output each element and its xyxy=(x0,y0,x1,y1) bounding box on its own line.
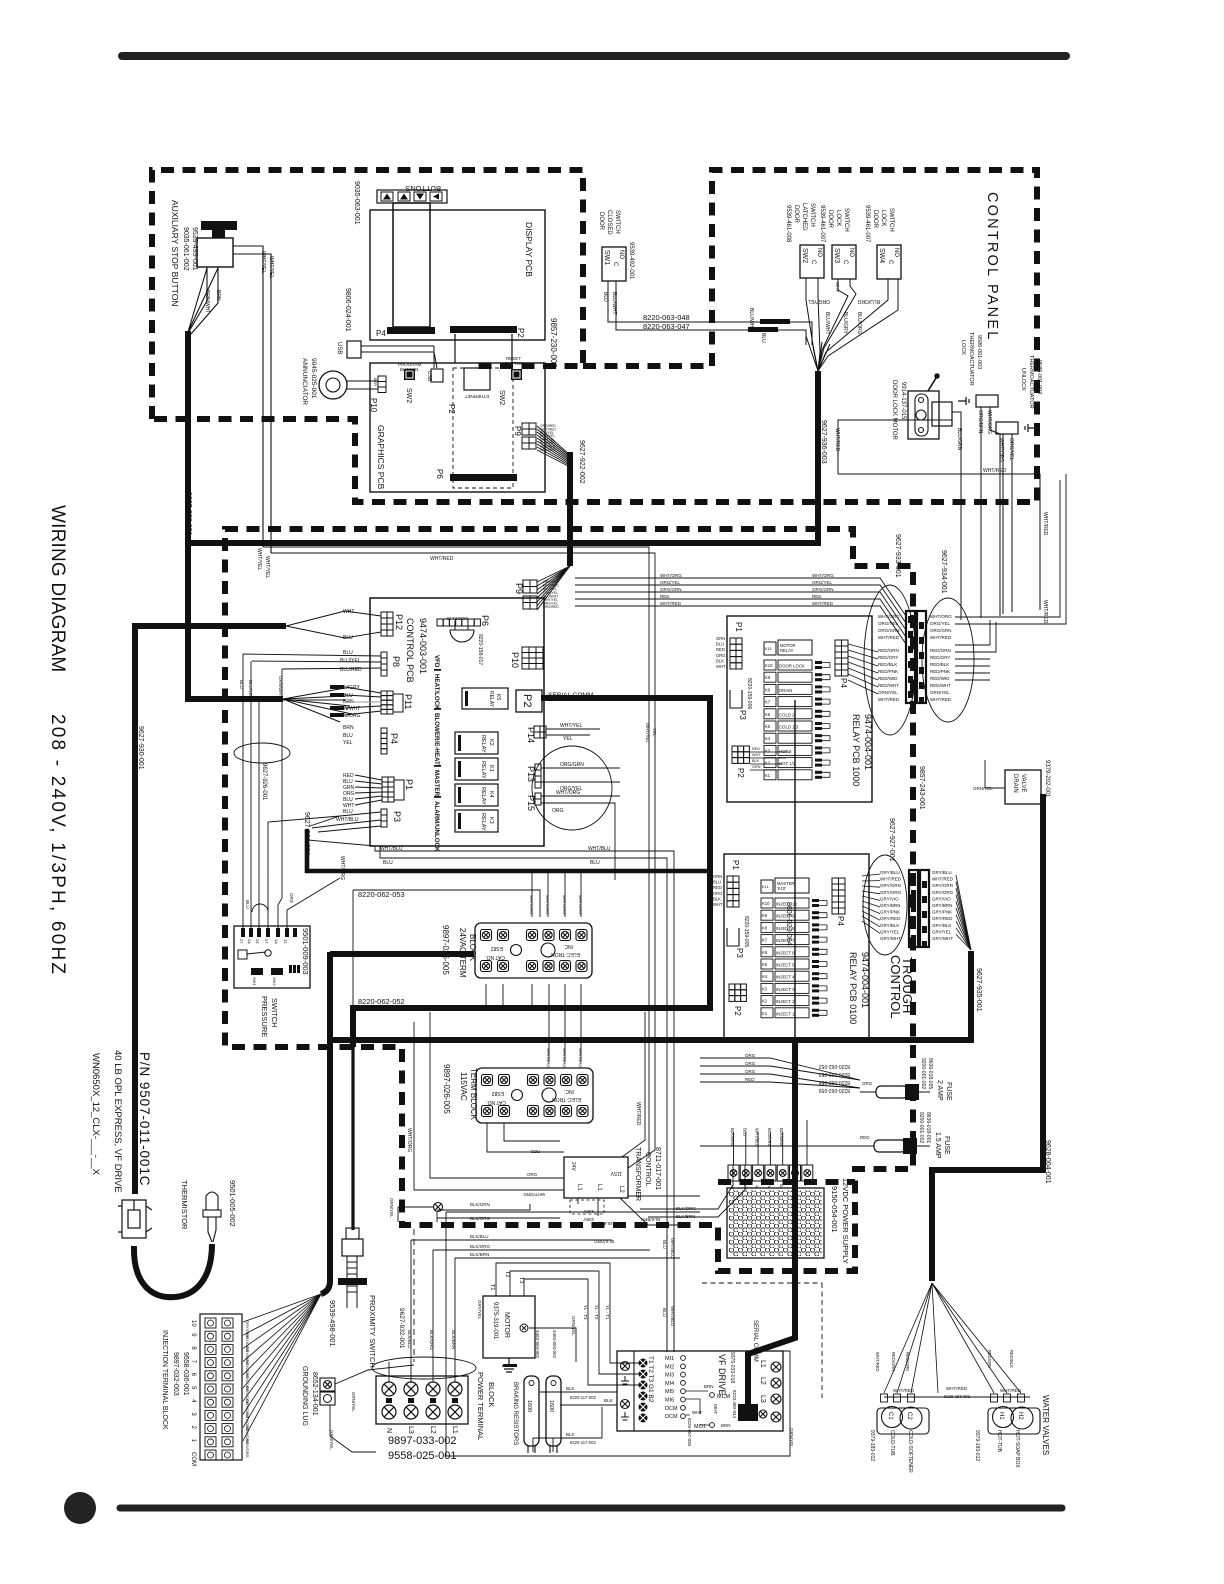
pressure switch xyxy=(234,926,310,988)
svg-text:SW2: SW2 xyxy=(498,390,505,405)
svg-text:40 LB OPL EXPRESS, VF DRIVE: 40 LB OPL EXPRESS, VF DRIVE xyxy=(112,1050,123,1193)
svg-text:K5: K5 xyxy=(765,724,771,729)
svg-text:WHT: WHT xyxy=(692,1410,702,1415)
svg-text:BLK/BLU: BLK/BLU xyxy=(407,1330,412,1349)
svg-text:BLK: BLK xyxy=(752,759,760,763)
svg-text:L3: L3 xyxy=(407,1426,414,1434)
svg-text:ELEC-TRON: ELEC-TRON xyxy=(551,951,580,957)
svg-text:K1: K1 xyxy=(762,1011,768,1016)
svg-text:K10: K10 xyxy=(762,901,770,906)
svg-text:WHT: WHT xyxy=(752,753,761,757)
svg-text:9539-499-001: 9539-499-001 xyxy=(191,227,198,271)
wires 115VAC bottom to transformer xyxy=(487,1123,564,1152)
svg-text:BLU: BLU xyxy=(662,1308,667,1317)
svg-text:9379-202-001: 9379-202-001 xyxy=(1044,760,1050,798)
svg-text:K6: K6 xyxy=(762,950,768,955)
svg-text:8652-134-001: 8652-134-001 xyxy=(311,1372,318,1416)
wires to fuses 8220-062 xyxy=(700,1058,860,1080)
svg-text:MI1: MI1 xyxy=(665,1356,674,1362)
svg-text:ORG/YEL: ORG/YEL xyxy=(660,580,681,585)
svg-text:12VDC POWER SUPPLY: 12VDC POWER SUPPLY xyxy=(841,1178,850,1264)
svg-text:9474-004-001: 9474-004-001 xyxy=(863,714,873,770)
svg-text:CLOSED: CLOSED xyxy=(606,210,612,235)
svg-text:WHT/ORG: WHT/ORG xyxy=(660,573,682,578)
svg-text:INJECT 6: INJECT 6 xyxy=(776,950,795,955)
svg-text:USB: USB xyxy=(426,371,432,382)
svg-text:GROUNDING LUG: GROUNDING LUG xyxy=(301,1366,308,1426)
svg-text:8220-063-048: 8220-063-048 xyxy=(643,313,690,322)
control transformer xyxy=(564,1157,628,1198)
svg-text:K2: K2 xyxy=(762,999,768,1004)
svg-text:K3: K3 xyxy=(762,986,768,991)
svg-text:208V: 208V xyxy=(583,1217,594,1222)
svg-text:1600: 1600 xyxy=(526,1400,532,1412)
ethernet jack xyxy=(464,368,490,390)
svg-text:8636-018-001: 8636-018-001 xyxy=(925,1112,931,1143)
svg-text:H1: H1 xyxy=(998,1412,1004,1420)
svg-text:BLK: BLK xyxy=(566,1386,575,1391)
svg-text:GRY/YEL: GRY/YEL xyxy=(477,1300,482,1320)
USB plug xyxy=(347,341,361,358)
relays K2 K1 K4 K3 xyxy=(455,732,498,754)
svg-text:GRY/BRN: GRY/BRN xyxy=(932,903,952,908)
dashed outline VF drive bay xyxy=(702,1283,822,1398)
harness ellipse 0100 xyxy=(863,855,907,955)
svg-text:BLK/BRN: BLK/BRN xyxy=(593,1221,612,1226)
svg-text:9627-921-001: 9627-921-001 xyxy=(303,812,310,856)
injection harness fan xyxy=(243,1294,321,1322)
svg-text:8220-063-047: 8220-063-047 xyxy=(643,322,690,331)
svg-text:WHT/ORG: WHT/ORG xyxy=(523,1192,545,1197)
svg-text:DRAIN: DRAIN xyxy=(779,688,792,693)
dashed link display-to-control-panel xyxy=(583,363,712,369)
fan 9627-928 to P4 xyxy=(283,688,352,722)
svg-text:GRY/YEL: GRY/YEL xyxy=(932,929,952,934)
harness ellipse 9627-926 xyxy=(234,743,290,763)
svg-text:2T: 2T xyxy=(239,939,244,944)
svg-text:9627-935-001: 9627-935-001 xyxy=(975,968,982,1012)
wires control bottom WHT/BLU BLU xyxy=(375,846,674,1352)
fan 9627-930 to P12 xyxy=(286,611,345,638)
wires aux stop button WHT/YEL pair xyxy=(233,246,271,553)
svg-text:LOCK: LOCK xyxy=(880,210,886,226)
fan stubs P11 labels xyxy=(330,685,344,689)
fan GRY connector to trunk xyxy=(956,875,971,950)
svg-text:RED: RED xyxy=(752,747,760,751)
svg-text:8220-062-058: 8220-062-058 xyxy=(819,1079,850,1085)
harness ellipse right 9627-934-001 xyxy=(922,598,974,722)
cable thermistor loop xyxy=(132,1157,138,1194)
wires SW1 to splice 8220-063 xyxy=(608,281,806,330)
svg-text:WHT/BLU: WHT/BLU xyxy=(755,1128,760,1147)
svg-text:ORG/YEL: ORG/YEL xyxy=(930,621,951,626)
graphics P6 connector xyxy=(450,474,517,481)
svg-text:WHT/YEL: WHT/YEL xyxy=(645,723,650,743)
svg-text:FUSE: FUSE xyxy=(945,1082,952,1101)
svg-text:WHT: WHT xyxy=(713,1404,718,1414)
svg-text:'K10': 'K10' xyxy=(777,886,786,891)
svg-text:WHT: WHT xyxy=(716,664,726,669)
svg-text:WHT/ORG: WHT/ORG xyxy=(339,856,345,880)
svg-text:WHT/RED: WHT/RED xyxy=(430,556,454,562)
svg-text:WHT/RED: WHT/RED xyxy=(875,1352,880,1372)
svg-text:RELAY: RELAY xyxy=(480,813,486,831)
harness ellipse 9627-933-001 xyxy=(864,585,916,735)
svg-text:RED/WHT: RED/WHT xyxy=(930,683,951,688)
svg-text:CAT NO.: CAT NO. xyxy=(486,1099,506,1105)
svg-text:8220-158-017: 8220-158-017 xyxy=(477,634,483,665)
cable 9627-xxx main lower trunk xyxy=(330,951,971,1040)
svg-text:-V: -V xyxy=(767,1184,772,1189)
svg-text:RED/ORN: RED/ORN xyxy=(891,1352,896,1371)
lock thermoactuator xyxy=(976,395,998,407)
svg-text:WHT/BLU: WHT/BLU xyxy=(670,1238,675,1258)
svg-text:8711-017-001: 8711-017-001 xyxy=(654,1147,661,1190)
VF drive wires MI internal xyxy=(686,1391,710,1425)
graphics USB xyxy=(431,369,443,382)
svg-text:K3: K3 xyxy=(488,817,494,824)
svg-text:MCM: MCM xyxy=(717,1394,731,1400)
svg-text:MI2: MI2 xyxy=(665,1364,674,1370)
svg-text:ORG/YEL: ORG/YEL xyxy=(1008,438,1014,460)
svg-text:GRN/YEL: GRN/YEL xyxy=(389,1198,394,1218)
door lock motor xyxy=(908,391,939,439)
svg-text:SW1: SW1 xyxy=(252,977,257,986)
svg-text:P4: P4 xyxy=(389,733,399,744)
svg-text:C: C xyxy=(612,262,618,267)
svg-text:8220-163-002: 8220-163-002 xyxy=(944,1394,971,1399)
dashed enclosure display assembly xyxy=(152,170,583,419)
braking resistor wires xyxy=(540,1392,617,1405)
svg-text:GRY/VIO: GRY/VIO xyxy=(932,896,951,901)
svg-text:BLK/ORG: BLK/ORG xyxy=(470,1244,491,1249)
svg-text:8220-062-059: 8220-062-059 xyxy=(819,1087,850,1093)
svg-text:L1: L1 xyxy=(596,1184,602,1191)
svg-text:P1: P1 xyxy=(734,622,743,632)
svg-text:BLK/GRN: BLK/GRN xyxy=(470,1202,490,1207)
svg-text:PROXIMITY SWITCH: PROXIMITY SWITCH xyxy=(368,1295,377,1368)
svg-text:BLK: BLK xyxy=(566,1432,575,1437)
svg-text:WHT/RED: WHT/RED xyxy=(880,877,902,882)
svg-text:WHT/ORG: WHT/ORG xyxy=(545,895,550,914)
svg-text:ORG/GRN: ORG/GRN xyxy=(812,587,834,592)
svg-text:SW3: SW3 xyxy=(833,248,840,263)
inline connector pair upper xyxy=(906,611,915,703)
svg-text:BLK/BRN: BLK/BRN xyxy=(730,1128,735,1146)
svg-text:ORG: ORG xyxy=(745,1061,756,1066)
svg-text:RED: RED xyxy=(860,1135,870,1140)
page index dot xyxy=(64,1492,96,1524)
svg-text:WHT/RED: WHT/RED xyxy=(878,697,900,702)
ground screw upper xyxy=(434,1203,443,1212)
svg-text:P9: P9 xyxy=(513,426,522,436)
svg-text:2Z: 2Z xyxy=(255,939,260,944)
svg-text:DCM: DCM xyxy=(665,1406,678,1412)
svg-text:SERIAL COMM: SERIAL COMM xyxy=(752,1320,758,1362)
svg-text:K5: K5 xyxy=(495,694,501,700)
svg-text:8220-117-002: 8220-117-002 xyxy=(570,1440,596,1445)
water valves hot pair xyxy=(988,1408,1040,1434)
svg-text:9627-927-001: 9627-927-001 xyxy=(888,818,895,862)
display PCB xyxy=(370,210,545,340)
svg-text:ORG/GRN: ORG/GRN xyxy=(660,587,682,592)
wires into PS from transformer xyxy=(628,1165,745,1217)
svg-text:DRAIN: DRAIN xyxy=(1012,774,1018,793)
svg-text:L1: L1 xyxy=(759,1360,766,1368)
svg-text:GRN/YEL: GRN/YEL xyxy=(973,786,993,791)
svg-text:9150-054-001: 9150-054-001 xyxy=(830,1186,839,1233)
svg-text:115V: 115V xyxy=(610,1170,622,1176)
svg-text:YEL: YEL xyxy=(563,736,573,742)
loop 8220-062-052 xyxy=(355,1005,503,1007)
water valve cross wire xyxy=(884,1396,1030,1398)
fan relay1000 P4 to connector xyxy=(848,644,878,652)
unlock thermoactuator xyxy=(996,422,1018,434)
svg-text:K7: K7 xyxy=(762,938,768,943)
svg-text:ANNUNCIATOR: ANNUNCIATOR xyxy=(301,358,308,405)
door latched switch SW2 xyxy=(800,245,824,278)
svg-text:RED/ORN: RED/ORN xyxy=(930,648,951,653)
display connector P2 xyxy=(450,326,517,333)
svg-text:ORG/BRN: ORG/BRN xyxy=(977,410,983,434)
svg-text:P1: P1 xyxy=(404,779,414,790)
door lock switch SW3 xyxy=(832,245,856,279)
svg-text:WHT/ORG: WHT/ORG xyxy=(546,1048,551,1067)
svg-text:2A: 2A xyxy=(247,939,252,944)
svg-text:COLD-SOFTENER: COLD-SOFTENER xyxy=(907,1430,913,1473)
transformer secondary wires xyxy=(414,1012,564,1190)
motor ground xyxy=(502,1358,516,1372)
svg-text:9627-922-002: 9627-922-002 xyxy=(578,440,585,484)
svg-text:P11: P11 xyxy=(403,694,413,709)
svg-text:YEL: YEL xyxy=(343,740,353,746)
svg-text:P12: P12 xyxy=(394,614,404,630)
auxiliary stop button xyxy=(201,221,237,230)
relay K5 xyxy=(462,688,508,709)
control P8 xyxy=(381,652,387,676)
harness ellipse control P13-P15 xyxy=(532,746,612,830)
svg-text:9379-183-012: 9379-183-012 xyxy=(869,1430,875,1461)
grounding lug xyxy=(320,1378,335,1391)
svg-text:K1: K1 xyxy=(765,773,771,778)
five wires control to relay1000 xyxy=(575,578,906,616)
svg-text:GRN: GRN xyxy=(713,874,722,879)
cable 24VAC feed xyxy=(330,952,474,1281)
svg-text:9539-492-001: 9539-492-001 xyxy=(628,242,634,280)
svg-text:GRN: GRN xyxy=(752,765,761,769)
control P2 serial xyxy=(516,690,542,712)
svg-text:1600: 1600 xyxy=(548,1400,554,1412)
svg-text:WHT/ORG: WHT/ORG xyxy=(812,573,834,578)
svg-text:8220-062-053: 8220-062-053 xyxy=(358,890,405,899)
svg-text:GRY/GRN: GRY/GRN xyxy=(932,883,953,888)
svg-text:ORG: ORG xyxy=(527,1172,538,1177)
svg-text:8220-117-002: 8220-117-002 xyxy=(570,1395,596,1400)
svg-text:INC.: INC. xyxy=(563,943,573,949)
wire to transformer 115V xyxy=(622,1012,645,1157)
svg-text:L2: L2 xyxy=(429,1426,436,1434)
svg-text:RED/WHT: RED/WHT xyxy=(878,683,899,688)
svg-text:RED/WID: RED/WID xyxy=(878,676,898,681)
svg-text:RED/WID: RED/WID xyxy=(930,676,950,681)
svg-text:P4: P4 xyxy=(836,916,845,926)
svg-text:BLU: BLU xyxy=(716,642,724,647)
svg-text:RED: RED xyxy=(812,594,822,599)
svg-text:3A: 3A xyxy=(274,939,279,944)
svg-text:BLU: BLU xyxy=(602,292,608,302)
wires into power terminal xyxy=(411,1240,455,1382)
svg-text:P4: P4 xyxy=(839,678,848,688)
svg-text:INJECT 3: INJECT 3 xyxy=(776,987,795,992)
drain valve xyxy=(1005,770,1041,804)
svg-text:HOT-SOAP BOX: HOT-SOAP BOX xyxy=(1014,1430,1020,1468)
svg-text:RELAY PCB 1000: RELAY PCB 1000 xyxy=(851,714,861,786)
svg-text:INJECTION TERMINAL BLOCK: INJECTION TERMINAL BLOCK xyxy=(161,1330,168,1430)
svg-text:9857-230-003: 9857-230-003 xyxy=(549,318,558,368)
svg-text:MODEL ID: MODEL ID xyxy=(446,616,468,621)
VF drive box xyxy=(617,1351,783,1431)
svg-text:ORG/GRN: ORG/GRN xyxy=(930,628,952,633)
door lock lever xyxy=(928,378,936,391)
svg-text:YL - T3: YL - T3 xyxy=(583,1305,588,1320)
svg-text:COM: COM xyxy=(190,1452,196,1466)
svg-text:ORG: ORG xyxy=(862,1081,873,1086)
svg-text:T1: T1 xyxy=(489,1284,495,1290)
svg-text:BLU: BLU xyxy=(713,880,721,885)
svg-text:WHT/ORG: WHT/ORG xyxy=(562,895,567,914)
graphics PCB xyxy=(370,363,545,492)
svg-text:P6: P6 xyxy=(435,469,444,479)
proximity switch xyxy=(346,1228,359,1239)
svg-text:C: C xyxy=(887,260,893,265)
svg-text:BLU/WHT: BLU/WHT xyxy=(824,312,830,335)
svg-text:RED/PNK: RED/PNK xyxy=(878,669,898,674)
control P4 xyxy=(381,728,387,754)
power supply terminal row xyxy=(728,1165,739,1181)
cable injection harness curve xyxy=(321,1281,330,1294)
wires P3 to 9627-921 xyxy=(307,812,381,846)
svg-text:GRY/WHT: GRY/WHT xyxy=(932,936,953,941)
svg-text:BRN: BRN xyxy=(721,1423,731,1428)
svg-text:CAT NO.: CAT NO. xyxy=(485,954,505,960)
svg-text:BUTTON: BUTTON xyxy=(400,367,418,372)
control P11 xyxy=(381,691,393,714)
fan 9627-936 top xyxy=(806,336,830,371)
svg-text:CONTROL PCB: CONTROL PCB xyxy=(405,618,415,683)
power terminal block xyxy=(376,1376,468,1424)
svg-text:P2: P2 xyxy=(733,1006,742,1016)
svg-text:TROUGH: TROUGH xyxy=(900,957,915,1013)
svg-text:9501-005-002: 9501-005-002 xyxy=(228,1180,237,1227)
svg-text:RELAY: RELAY xyxy=(480,735,486,753)
fan graphics P9 to cable xyxy=(537,426,570,455)
svg-text:GRN/YEL: GRN/YEL xyxy=(351,1392,356,1412)
svg-text:L2: L2 xyxy=(759,1377,766,1385)
svg-text:C2: C2 xyxy=(906,1412,912,1420)
svg-text:RED/BLK: RED/BLK xyxy=(1009,1350,1014,1368)
svg-text:9914-137-015: 9914-137-015 xyxy=(900,382,906,420)
svg-text:GRY/RED: GRY/RED xyxy=(880,916,901,921)
svg-text:INJECT 5: INJECT 5 xyxy=(776,963,795,968)
svg-text:1.5 AMP: 1.5 AMP xyxy=(934,1132,941,1159)
svg-text:WHT: WHT xyxy=(835,282,840,292)
svg-text:P10: P10 xyxy=(369,398,378,413)
svg-text:COLD-TUB: COLD-TUB xyxy=(889,1430,895,1456)
door closed switch SW1 xyxy=(602,247,626,281)
svg-text:RELAY PCB 0100: RELAY PCB 0100 xyxy=(848,952,858,1024)
svg-text:ORG/YEL: ORG/YEL xyxy=(878,621,899,626)
svg-text:9483-004-002: 9483-004-002 xyxy=(552,1330,557,1359)
svg-text:T3: T3 xyxy=(518,1277,524,1283)
control P15 xyxy=(535,793,541,805)
svg-text:BLU/GRY: BLU/GRY xyxy=(842,312,848,335)
dashed enclosure machine cabinet xyxy=(225,529,913,1271)
svg-text:2 AMP: 2 AMP xyxy=(936,1080,943,1101)
svg-text:9627-930-001: 9627-930-001 xyxy=(137,726,144,770)
svg-text:HEAT/LOCK: HEAT/LOCK xyxy=(433,674,440,710)
svg-text:BLK/ORG: BLK/ORG xyxy=(470,1216,491,1221)
svg-text:CONTROL: CONTROL xyxy=(644,1152,651,1186)
svg-text:P/N 9507-011-001C: P/N 9507-011-001C xyxy=(137,1052,152,1186)
svg-text:AUXILIARY STOP BUTTON: AUXILIARY STOP BUTTON xyxy=(170,200,180,306)
svg-text:9627-928-001: 9627-928-001 xyxy=(185,492,192,536)
svg-text:DOOR: DOOR xyxy=(827,210,833,229)
svg-text:TERM BLOCK: TERM BLOCK xyxy=(469,1068,478,1121)
svg-text:P3: P3 xyxy=(738,710,747,720)
buttons strip xyxy=(377,190,447,203)
svg-text:GRY/PNK: GRY/PNK xyxy=(880,910,900,915)
svg-text:BRN: BRN xyxy=(215,290,221,301)
svg-text:GRY/ORG: GRY/ORG xyxy=(932,890,954,895)
svg-text:UNLOCK: UNLOCK xyxy=(1020,368,1026,391)
svg-text:K10: K10 xyxy=(765,663,773,668)
svg-text:WHT/ORG: WHT/ORG xyxy=(878,614,900,619)
svg-text:K2: K2 xyxy=(488,739,494,746)
svg-text:9045-025-001: 9045-025-001 xyxy=(310,358,317,399)
svg-text:ORG: ORG xyxy=(716,653,726,658)
svg-text:MI4: MI4 xyxy=(665,1381,674,1387)
svg-text:ORG: ORG xyxy=(713,891,723,896)
svg-text:ORG/GRN: ORG/GRN xyxy=(878,628,900,633)
svg-text:RED/BLK: RED/BLK xyxy=(878,662,897,667)
svg-text:BLOCK: BLOCK xyxy=(487,1382,496,1407)
svg-text:BRN: BRN xyxy=(343,725,354,731)
svg-text:RED/GRN: RED/GRN xyxy=(905,1352,910,1371)
svg-text:P1: P1 xyxy=(731,860,740,870)
svg-text:YEL: YEL xyxy=(652,728,657,737)
annunciator xyxy=(319,371,347,399)
svg-text:WHT/YEL: WHT/YEL xyxy=(268,256,274,278)
svg-text:9375-319-001: 9375-319-001 xyxy=(492,1302,498,1340)
svg-text:-V: -V xyxy=(755,1184,760,1189)
svg-text:BRAKING RESISTORS: BRAKING RESISTORS xyxy=(512,1382,518,1445)
svg-text:YL - T2: YL - T2 xyxy=(594,1305,599,1320)
svg-text:9539-461-008: 9539-461-008 xyxy=(785,205,791,243)
svg-text:FUSE: FUSE xyxy=(943,1136,950,1155)
cable 9627-921-001 P3 run xyxy=(307,829,710,871)
cable VF drive power branch xyxy=(748,1040,795,1404)
svg-text:WHT/RED: WHT/RED xyxy=(834,428,840,452)
wires SW2-SW4 converge xyxy=(806,278,820,352)
relay PCB 1000 xyxy=(727,616,872,802)
svg-text:MASTER: MASTER xyxy=(433,770,440,797)
svg-text:MI3: MI3 xyxy=(665,1373,674,1379)
inline connector pair lower GRY xyxy=(909,870,918,947)
cable 9627-930-001 thermistor run xyxy=(135,626,286,1157)
svg-text:WHT/RED: WHT/RED xyxy=(812,601,834,606)
svg-text:MI5: MI5 xyxy=(665,1389,674,1395)
svg-text:BLU: BLU xyxy=(245,900,250,909)
